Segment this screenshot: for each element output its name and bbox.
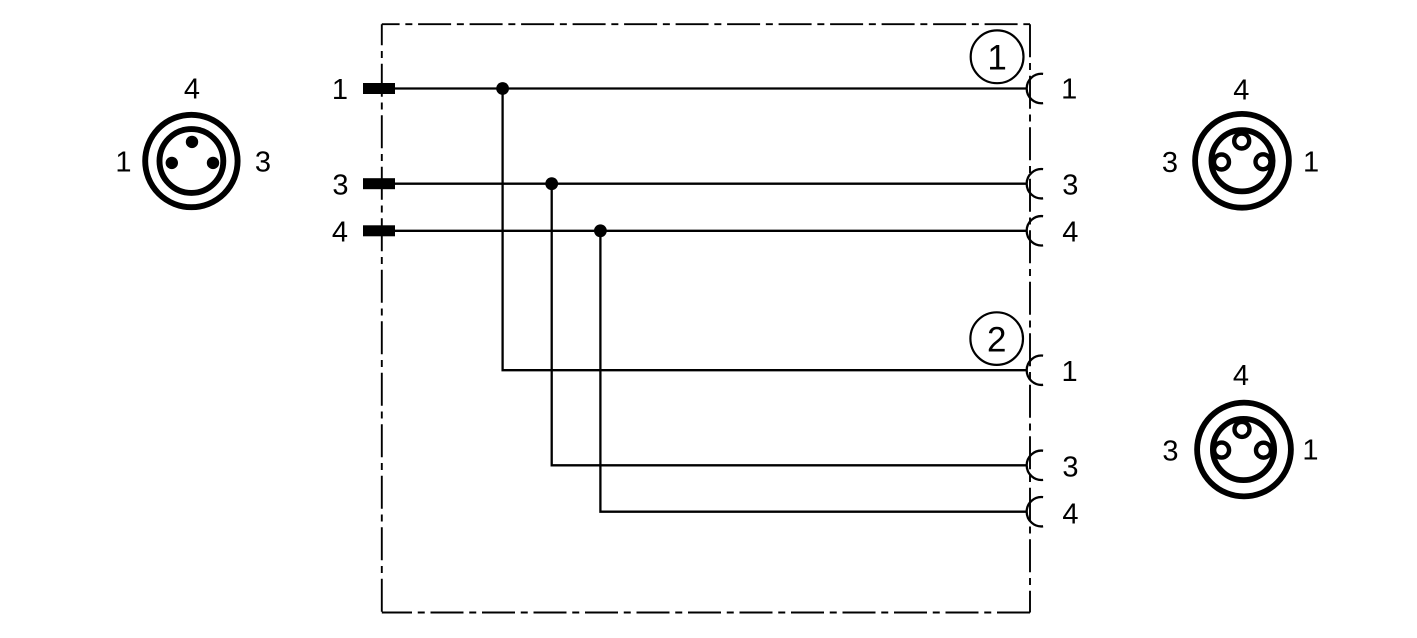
input terminal stub 4 (363, 225, 395, 236)
svg-text:1: 1 (987, 39, 1006, 78)
right connector 1 socket 4 (top) (1234, 134, 1249, 149)
svg-text:4: 4 (1233, 74, 1249, 106)
socket arc output 4 group 1 (1027, 216, 1043, 245)
right connector 2 socket 1 (right) (1256, 443, 1271, 458)
wire input3 to output3 of group 1 (395, 183, 1026, 185)
svg-text:4: 4 (1233, 360, 1249, 392)
svg-text:3: 3 (332, 169, 348, 201)
svg-text:3: 3 (1062, 452, 1078, 484)
svg-text:1: 1 (1302, 435, 1318, 467)
right connector 1 inner circle (1211, 130, 1272, 191)
right connector 1 socket 3 (left) (1214, 155, 1229, 170)
svg-text:3: 3 (1062, 169, 1078, 201)
left connector pin 3 (right) (207, 157, 219, 169)
wire branch 3 to output3 of group 2 (552, 184, 1026, 466)
distributor box dash-dot border right edge (1029, 24, 1031, 612)
wire branch 1 to output1 of group 2 (503, 89, 1027, 371)
right connector 2 outer circle (1197, 403, 1291, 497)
distributor box dash-dot border left edge (381, 24, 383, 612)
socket arc output 1 group 2 (1027, 356, 1043, 385)
wire branch 4 to output4 of group 2 (600, 231, 1026, 512)
junction dot wire1 (496, 82, 509, 95)
distributor box dash-dot border bottom edge (382, 612, 1030, 614)
port group 1 circled number (971, 30, 1024, 83)
svg-text:4: 4 (1062, 216, 1078, 248)
left connector inner circle (160, 129, 224, 193)
right connector 2 inner circle (1213, 419, 1274, 480)
socket arc output 4 group 2 (1027, 497, 1043, 526)
wire input1 to output1 of group 1 (395, 87, 1026, 89)
svg-text:1: 1 (1061, 73, 1077, 105)
svg-text:3: 3 (1162, 147, 1178, 179)
socket arc output 1 group 1 (1027, 74, 1043, 103)
wire input4 to output4 of group 1 (395, 230, 1026, 232)
port group 2 circled number (970, 312, 1023, 365)
left connector pin 4 (top) (186, 136, 198, 148)
socket arc output 3 group 1 (1027, 169, 1043, 198)
svg-text:4: 4 (184, 74, 200, 106)
left connector male face (145, 115, 237, 207)
input terminal stub 1 (363, 83, 395, 94)
distributor box dash-dot border top edge (382, 23, 1030, 25)
socket arc output 3 group 2 (1027, 451, 1043, 480)
right connector 2 female face (1197, 403, 1291, 497)
right connector 2 socket 4 (top) (1235, 422, 1250, 437)
svg-text:1: 1 (1062, 356, 1078, 388)
left connector outer circle (145, 115, 237, 207)
svg-text:3: 3 (255, 147, 271, 179)
svg-text:3: 3 (1162, 435, 1178, 467)
left connector pin 1 (left) (166, 157, 178, 169)
junction dot wire4 (594, 224, 607, 237)
svg-text:2: 2 (987, 320, 1006, 359)
right connector 1 outer circle (1195, 114, 1289, 208)
right connector 1 socket 1 (right) (1256, 154, 1271, 169)
svg-text:1: 1 (1303, 146, 1319, 178)
junction dot wire3 (545, 177, 558, 190)
svg-text:1: 1 (115, 147, 131, 179)
right connector 2 socket 3 (left) (1214, 443, 1229, 458)
input terminal stub 3 (363, 178, 395, 189)
svg-text:4: 4 (332, 216, 348, 248)
right connector 1 female face (1195, 114, 1289, 208)
svg-text:4: 4 (1062, 498, 1078, 530)
svg-text:1: 1 (332, 74, 348, 106)
